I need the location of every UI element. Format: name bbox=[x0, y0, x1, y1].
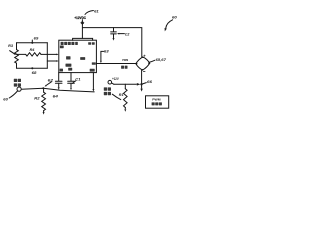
node +12VDC supply terminal bbox=[74, 15, 86, 25]
IC pin label bottom-left bbox=[68, 68, 72, 71]
svg-text:PWM: PWM bbox=[152, 98, 161, 102]
svg-text:69: 69 bbox=[34, 36, 40, 40]
wire loop to IC pin lower with arrowhead bbox=[47, 60, 58, 62]
svg-text:60: 60 bbox=[172, 15, 178, 20]
resistor R1 bbox=[124, 84, 128, 112]
svg-text:+12VDC: +12VDC bbox=[74, 15, 86, 20]
wire loop to IC pin upper with arrowhead bbox=[47, 54, 58, 56]
wire pot loop right edge bbox=[46, 43, 48, 69]
IC pin label top-left bbox=[60, 46, 64, 49]
IC internal part number text bbox=[66, 56, 85, 60]
svg-text:65,67: 65,67 bbox=[156, 58, 168, 62]
leader stub to label 66 bbox=[143, 80, 154, 84]
leader to numeral 60 bbox=[3, 91, 17, 102]
svg-text:62: 62 bbox=[48, 79, 53, 83]
terminal +12V circle bbox=[108, 77, 119, 84]
leader curve from caption bbox=[112, 94, 120, 99]
bridge rectifier/motor diamond bbox=[135, 56, 150, 70]
input signal CJK caption bbox=[14, 79, 21, 87]
svg-text:C1: C1 bbox=[75, 77, 80, 81]
leader to labels 65 67 bbox=[149, 58, 167, 62]
leader to reference numeral 61 bbox=[85, 8, 99, 14]
resistor R4 bbox=[17, 53, 48, 56]
wire power T-bar over IC with two drops bbox=[73, 38, 93, 40]
svg-text:R2: R2 bbox=[34, 97, 39, 101]
wire motor bottom to ground arrow bbox=[140, 70, 142, 92]
IC pin label right (pin 70) bbox=[92, 62, 96, 64]
wire pot loop bottom edge bbox=[17, 67, 48, 69]
svg-text:R3: R3 bbox=[8, 44, 13, 48]
input terminal circle bbox=[17, 87, 21, 91]
wire +12V input with arrowhead bbox=[114, 83, 140, 86]
resistor R2 bbox=[42, 88, 46, 114]
svg-text:60: 60 bbox=[3, 98, 9, 102]
IC pin label bottom-corner bbox=[60, 69, 63, 72]
svg-text:66: 66 bbox=[147, 80, 153, 84]
label 63 with bent leader bbox=[100, 50, 109, 63]
IC internal text row (speed control CJK) bbox=[61, 42, 95, 45]
PWM driver box bbox=[146, 96, 169, 108]
label minus terminal bbox=[143, 71, 145, 73]
svg-text:+12V: +12V bbox=[112, 77, 119, 81]
svg-text:63: 63 bbox=[104, 50, 109, 54]
capacitor C3 under IC bbox=[68, 73, 75, 91]
wire top supply rail to motor bbox=[82, 28, 141, 58]
node junction input/R2 bbox=[42, 87, 44, 89]
svg-text:68: 68 bbox=[32, 71, 38, 75]
svg-text:R4: R4 bbox=[30, 48, 35, 52]
svg-text:+: + bbox=[143, 53, 146, 58]
potentiometer R3 wiper arrow bbox=[10, 51, 16, 55]
svg-text:R1: R1 bbox=[119, 93, 124, 97]
wire pot loop top edge bbox=[17, 42, 48, 44]
IC pin label bottom-right GND bbox=[90, 69, 95, 72]
capacitor C1 under IC bbox=[55, 73, 62, 90]
svg-text:C2: C2 bbox=[125, 32, 130, 36]
node junction motor-low bbox=[140, 83, 142, 85]
svg-text:PWM: PWM bbox=[122, 58, 128, 62]
label PWM input bbox=[121, 58, 129, 69]
svg-text:64: 64 bbox=[53, 94, 58, 98]
node dot bottom of loop bbox=[31, 67, 37, 75]
wire common bottom line bbox=[21, 88, 94, 92]
IC pin label left-mid bbox=[66, 64, 72, 67]
control input CJK caption bbox=[104, 87, 111, 95]
wire from +12VDC node down to IC bbox=[81, 20, 83, 39]
wire IC output to motor (PWM) bbox=[96, 63, 135, 65]
capacitor C2 bbox=[111, 28, 117, 41]
potentiometer R3 body bbox=[15, 43, 19, 69]
node dot top of loop bbox=[31, 36, 39, 43]
label C1 leader to junction bbox=[45, 79, 54, 87]
svg-text:61: 61 bbox=[94, 8, 99, 13]
IC bottom-right pin wire to common with arrowhead bbox=[92, 73, 94, 92]
label 66 above capacitor C3 bbox=[72, 77, 80, 83]
label C2 with leader arrow bbox=[117, 32, 130, 36]
op-amp/timer IC U1 box bbox=[59, 40, 97, 72]
assembly reference arrow 60 bbox=[165, 15, 178, 32]
